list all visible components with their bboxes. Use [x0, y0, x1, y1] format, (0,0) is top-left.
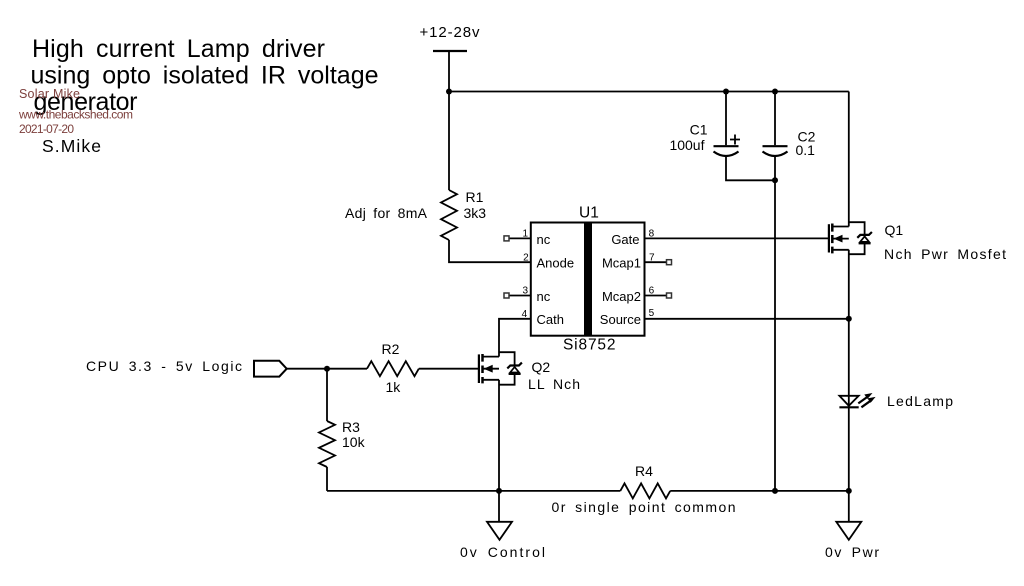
pin 2 Anode [523, 252, 574, 270]
svg-text:Mcap1: Mcap1 [602, 256, 641, 271]
pin 1 nc [504, 229, 551, 247]
svg-text:Nch Pwr Mosfet: Nch Pwr Mosfet [884, 246, 1006, 262]
svg-text:nc: nc [537, 232, 551, 247]
resistor R3 [319, 421, 335, 467]
pin 6 Mcap2 [602, 286, 672, 304]
junction: Q2 source at rail [496, 488, 502, 494]
wire: rail to C2 [774, 92, 776, 146]
junction: C1 bottom tee [772, 177, 778, 183]
svg-text:R1: R1 [466, 189, 484, 205]
svg-text:2: 2 [523, 252, 529, 263]
svg-text:LedLamp: LedLamp [887, 393, 953, 409]
pin 7 Mcap1 [602, 252, 672, 270]
junction: supply tee [446, 89, 452, 95]
svg-text:using opto isolated IR voltage: using opto isolated IR voltage [31, 62, 379, 90]
transistor Q1 [829, 222, 872, 319]
power symbol +12-28v [420, 24, 481, 92]
pin 8 Gate [611, 229, 654, 247]
svg-text:Adj for 8mA: Adj for 8mA [345, 205, 428, 221]
wire: U1 Cath pin 4 to Q2 drain [499, 319, 531, 357]
transistor Q2 [479, 352, 522, 491]
svg-text:CPU 3.3 - 5v Logic: CPU 3.3 - 5v Logic [86, 358, 242, 374]
wire: input tee to R3 [326, 369, 328, 421]
svg-text:R4: R4 [635, 463, 653, 479]
svg-text:Si8752: Si8752 [563, 337, 616, 354]
wire: R2 to Q2 gate [419, 368, 479, 370]
resistor R2 [367, 361, 419, 376]
wire: input to R2 [287, 368, 367, 370]
svg-text:Solar Mike: Solar Mike [19, 87, 80, 101]
wire: U1 Gate pin 8 to Q1 gate [645, 237, 829, 239]
svg-text:Mcap2: Mcap2 [602, 289, 641, 304]
wire: rail to R1 [448, 92, 450, 191]
svg-text:www.thebackshed.com: www.thebackshed.com [18, 108, 133, 122]
svg-text:1: 1 [522, 229, 528, 240]
svg-text:Cath: Cath [537, 312, 564, 327]
svg-text:+12-28v: +12-28v [420, 24, 481, 41]
svg-text:Gate: Gate [611, 232, 639, 247]
svg-text:0.1: 0.1 [796, 142, 816, 158]
wire: LED to 0v rail [848, 407, 850, 491]
capacitor C2 [763, 146, 788, 156]
svg-text:0r single point common: 0r single point common [552, 499, 736, 515]
LED LedLamp [839, 393, 875, 407]
svg-text:C1: C1 [690, 121, 708, 137]
svg-text:Q1: Q1 [885, 222, 904, 238]
wire: R1 to U1 Anode pin 2 [449, 240, 531, 262]
svg-text:U1: U1 [579, 205, 599, 222]
wire: +12v top rail [449, 91, 849, 93]
svg-text:R2: R2 [382, 341, 400, 357]
svg-text:3: 3 [522, 286, 528, 297]
junction: LED at rail [846, 488, 852, 494]
svg-text:S.Mike: S.Mike [42, 136, 101, 156]
svg-text:R3: R3 [342, 419, 360, 435]
resistor R4 [620, 483, 670, 498]
svg-text:5: 5 [649, 308, 655, 319]
op-isolator U1 body [531, 223, 645, 336]
pin 5 Source [600, 308, 655, 327]
svg-text:1k: 1k [386, 379, 402, 395]
wire: C2 to 0v rail [774, 157, 776, 491]
wire: Q1 source to LED [848, 319, 850, 408]
svg-text:100uf: 100uf [669, 137, 704, 153]
title text [31, 35, 379, 116]
svg-text:10k: 10k [342, 434, 366, 450]
svg-text:Anode: Anode [537, 256, 575, 271]
wire: 0v rail left [327, 490, 620, 492]
resistor R1 [441, 190, 457, 240]
svg-text:Source: Source [600, 312, 641, 327]
svg-text:nc: nc [537, 289, 551, 304]
junction: C2 top [772, 89, 778, 95]
svg-text:2021-07-20: 2021-07-20 [19, 122, 74, 136]
svg-text:6: 6 [649, 286, 655, 297]
capacitor C1 [714, 135, 741, 157]
svg-text:3k3: 3k3 [464, 205, 487, 221]
ground 0v Pwr [836, 491, 861, 540]
svg-text:7: 7 [649, 252, 655, 263]
svg-text:0v Control: 0v Control [460, 544, 545, 560]
ground 0v Control [487, 491, 512, 540]
wire: 0v rail right [670, 490, 849, 492]
svg-text:Q2: Q2 [532, 359, 551, 375]
wire: U1 Source pin 5 to Q1 source [645, 318, 849, 320]
connector CPU logic input [254, 361, 287, 377]
pin 3 nc [504, 286, 551, 304]
wire: C1 bottom to C2 [726, 157, 775, 181]
wire: rail to C1 [725, 92, 727, 146]
junction: C1 top [723, 89, 729, 95]
wire: R3 to 0v rail [326, 467, 328, 491]
junction: C2 at rail [772, 488, 778, 494]
junction: Q1 source node [846, 316, 852, 322]
svg-text:High current Lamp driver: High current Lamp driver [32, 35, 325, 63]
junction: input tee [324, 366, 330, 372]
wire: rail to Q1 drain [848, 92, 850, 227]
pin 4 Cath [522, 309, 564, 327]
